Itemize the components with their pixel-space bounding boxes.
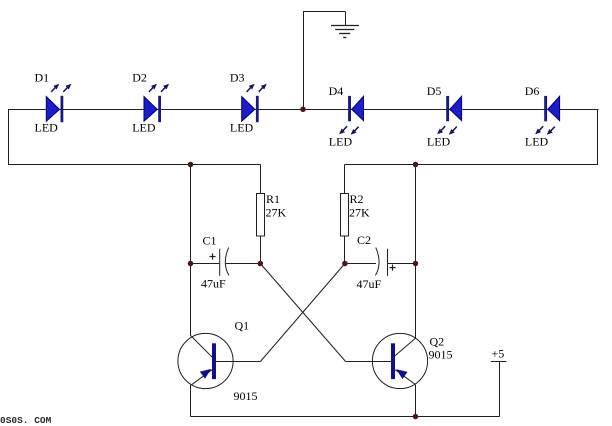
svg-text:9015: 9015 xyxy=(234,389,258,403)
svg-text:R2: R2 xyxy=(350,192,364,206)
svg-text:D6: D6 xyxy=(525,84,540,98)
svg-text:LED: LED xyxy=(132,121,156,135)
svg-text:D2: D2 xyxy=(132,71,147,85)
svg-text:C1: C1 xyxy=(203,234,217,248)
svg-text:27K: 27K xyxy=(266,206,287,220)
svg-text:LED: LED xyxy=(329,135,353,149)
svg-text:LED: LED xyxy=(427,135,451,149)
svg-text:47uF: 47uF xyxy=(201,277,226,291)
svg-text:R1: R1 xyxy=(266,192,280,206)
svg-text:C2: C2 xyxy=(357,233,371,247)
svg-text:9015: 9015 xyxy=(429,347,453,361)
svg-text:D1: D1 xyxy=(35,71,50,85)
svg-text:D5: D5 xyxy=(427,84,442,98)
svg-text:+5: +5 xyxy=(492,346,505,360)
svg-text:LED: LED xyxy=(35,121,59,135)
svg-text:Q2: Q2 xyxy=(430,334,445,348)
svg-text:D3: D3 xyxy=(230,71,245,85)
svg-text:LED: LED xyxy=(525,135,549,149)
svg-text:27K: 27K xyxy=(349,206,370,220)
svg-text:Q1: Q1 xyxy=(235,319,250,333)
svg-text:D4: D4 xyxy=(329,84,344,98)
svg-text:47uF: 47uF xyxy=(357,277,382,291)
svg-text:LED: LED xyxy=(230,121,254,135)
